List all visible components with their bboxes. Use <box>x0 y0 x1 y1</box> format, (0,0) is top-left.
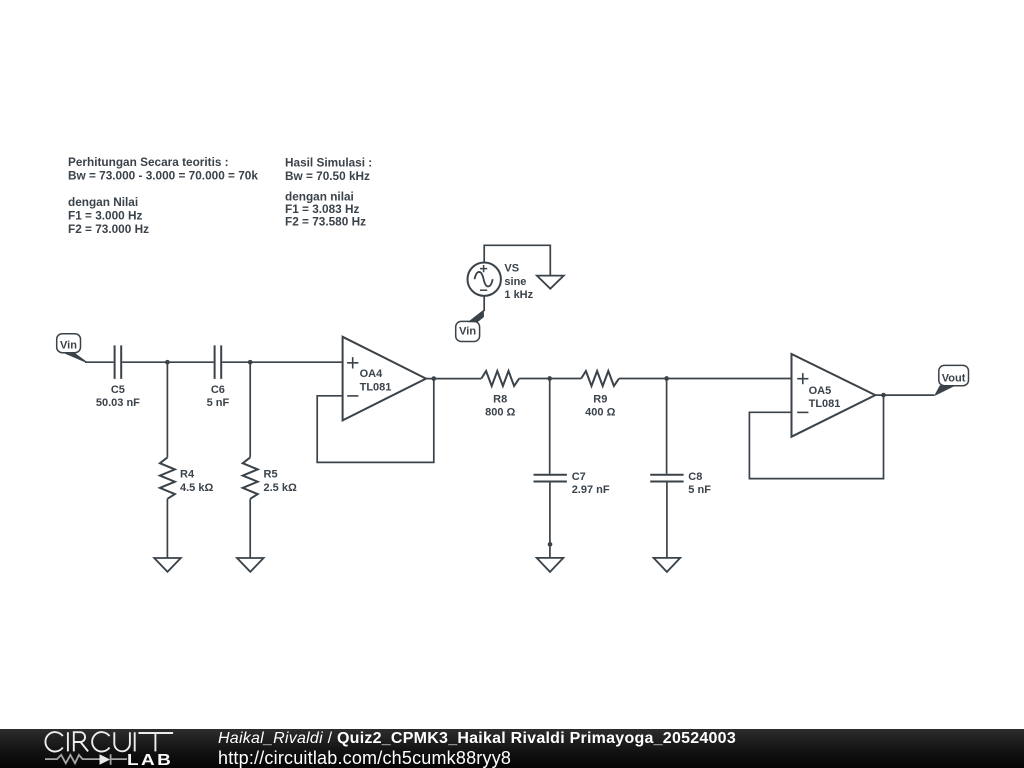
wire OA4 feedback <box>317 379 434 463</box>
wire node to C8 <box>666 379 668 474</box>
svg-text:Bw = 70.50 kHz: Bw = 70.50 kHz <box>285 169 370 183</box>
svg-text:OA4: OA4 <box>360 368 384 380</box>
svg-text:VS: VS <box>504 263 519 275</box>
wire OA5 feedback <box>749 395 883 479</box>
wire R5 to ground <box>249 499 251 558</box>
node C7 ground <box>548 542 553 547</box>
text annotation right block 2 <box>285 190 366 229</box>
flag Vin source <box>456 310 484 342</box>
wire R8 to node <box>519 378 581 380</box>
wire VS to Vin flag <box>483 296 485 311</box>
ground R4 <box>154 558 181 572</box>
node junction C7 <box>547 376 552 381</box>
footer text <box>218 730 736 748</box>
svg-text:Bw = 73.000 - 3.000 = 70.000 =: Bw = 73.000 - 3.000 = 70.000 = 70k <box>68 168 258 182</box>
svg-text:Vin: Vin <box>60 339 77 351</box>
wire OA4 output to R8 <box>426 378 481 380</box>
svg-text:1 kHz: 1 kHz <box>504 289 533 301</box>
svg-text:400 Ω: 400 Ω <box>585 407 615 419</box>
flag Vin input <box>57 334 87 363</box>
ground R5 <box>237 558 264 572</box>
svg-text:800 Ω: 800 Ω <box>485 407 515 419</box>
op-amp U1 OA4 <box>343 337 426 421</box>
wire C8 to ground <box>666 483 668 558</box>
wire node to R5 <box>249 362 251 457</box>
svg-text:2.5 kΩ: 2.5 kΩ <box>264 482 297 494</box>
node junction R4 <box>165 360 170 365</box>
svg-text:OA5: OA5 <box>809 385 832 397</box>
node junction R5 <box>248 360 253 365</box>
footer bar <box>0 729 1024 768</box>
svg-text:Hasil Simulasi :: Hasil Simulasi : <box>285 156 372 170</box>
svg-text:5 nF: 5 nF <box>688 484 711 496</box>
ground C8 <box>654 558 681 572</box>
text annotation left block 1 <box>68 155 258 182</box>
svg-text:LAB: LAB <box>127 752 173 768</box>
node junction C8 <box>664 376 669 381</box>
capacitor C8 <box>650 471 711 496</box>
svg-text:Perhitungan Secara teoritis :: Perhitungan Secara teoritis : <box>68 155 229 169</box>
wire node to C7 <box>549 379 551 474</box>
svg-text:5 nF: 5 nF <box>207 397 230 409</box>
svg-text:4.5 kΩ: 4.5 kΩ <box>180 482 213 494</box>
wire R9 to OA5 <box>619 378 792 380</box>
logo resistor and diode <box>45 754 127 765</box>
wire node to R4 <box>166 362 168 457</box>
svg-text:F1 = 3.000 Hz: F1 = 3.000 Hz <box>68 209 143 223</box>
text annotation left block 2 <box>68 195 149 236</box>
wire C6 to OA4 <box>222 361 342 363</box>
wire OA5 output to Vout <box>875 394 934 396</box>
CircuitLab logo <box>0 728 210 768</box>
svg-text:sine: sine <box>504 276 526 288</box>
op-amp U2 OA5 <box>792 354 876 437</box>
resistor R8 <box>481 371 519 419</box>
svg-text:C6: C6 <box>211 384 225 396</box>
voltage source VS <box>468 263 534 301</box>
resistor R9 <box>581 371 619 419</box>
svg-text:2.97 nF: 2.97 nF <box>572 484 610 496</box>
resistor R5 <box>243 457 297 498</box>
wire Vin to C5 <box>85 361 114 363</box>
node OA4 output <box>431 376 436 381</box>
svg-text:Vin: Vin <box>459 325 476 337</box>
svg-text:R9: R9 <box>593 394 607 406</box>
svg-text:50.03 nF: 50.03 nF <box>96 397 140 409</box>
ground VS <box>537 276 564 289</box>
svg-text:TL081: TL081 <box>360 382 392 394</box>
wire VS to ground <box>484 245 550 275</box>
capacitor C6 <box>207 345 230 409</box>
svg-text:C8: C8 <box>688 471 702 483</box>
svg-text:C7: C7 <box>572 471 586 483</box>
svg-text:F2 = 73.000 Hz: F2 = 73.000 Hz <box>68 222 149 236</box>
node OA5 output <box>881 393 886 398</box>
svg-text:F2 = 73.580 Hz: F2 = 73.580 Hz <box>285 214 366 228</box>
text annotation right block 1 <box>285 156 372 183</box>
svg-text:R4: R4 <box>180 469 195 481</box>
capacitor C5 <box>96 345 140 409</box>
ground C7 <box>537 558 564 572</box>
svg-text:TL081: TL081 <box>809 398 841 410</box>
flag Vout <box>934 365 969 396</box>
resistor R4 <box>160 457 214 498</box>
svg-text:Vout: Vout <box>942 372 966 384</box>
capacitor C7 <box>534 471 610 496</box>
wire R4 to ground <box>166 499 168 558</box>
svg-text:R5: R5 <box>264 469 278 481</box>
wire C5 to C6 <box>122 361 213 363</box>
svg-text:R8: R8 <box>493 394 507 406</box>
svg-text:dengan Nilai: dengan Nilai <box>68 195 138 209</box>
svg-text:C5: C5 <box>111 384 125 396</box>
wire C7 to ground <box>549 483 551 558</box>
